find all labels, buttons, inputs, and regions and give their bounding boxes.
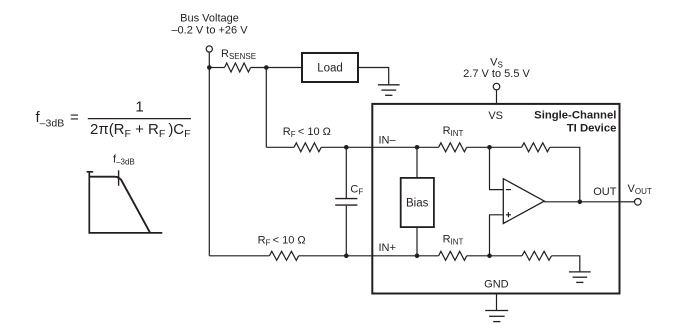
wire IN- to bias	[416, 147, 418, 178]
resistor RINT bottom	[417, 233, 522, 260]
svg-text:Bus Voltage: Bus Voltage	[180, 13, 239, 25]
wire op-amp output	[544, 201, 619, 203]
svg-text:TI Device: TI Device	[567, 123, 617, 135]
graph axes	[87, 172, 163, 233]
op-amp U1	[503, 179, 544, 224]
pin label IN-	[379, 135, 397, 147]
junction after RSENSE	[264, 65, 269, 70]
graph f-3dB tick	[118, 170, 120, 185]
load box	[302, 53, 358, 82]
svg-text:Load: Load	[317, 63, 343, 75]
junction CF bottom	[344, 254, 349, 259]
wire bias to IN+	[416, 227, 418, 256]
ground (device GND)	[485, 311, 508, 322]
device box Single-Channel TI Device	[372, 104, 619, 294]
svg-text:Bias: Bias	[406, 197, 429, 209]
resistor RF top (RF < 10 ohm)	[266, 126, 372, 152]
svg-text:RF < 10 Ω: RF < 10 Ω	[258, 234, 306, 247]
junction op-amp plus node	[487, 254, 492, 259]
svg-text:OUT: OUT	[593, 186, 617, 198]
graph response curve	[89, 177, 150, 233]
resistor RINT top	[417, 125, 522, 152]
svg-text:Single-Channel: Single-Channel	[534, 109, 616, 121]
wire IN+ into device	[372, 255, 417, 257]
wire bus terminal to top rail	[208, 52, 210, 67]
resistor RF bottom (RF < 10 ohm)	[209, 234, 372, 260]
ground (feedback bottom)	[569, 272, 591, 283]
resistor feedback bottom	[522, 251, 580, 272]
svg-text:=: =	[70, 109, 79, 126]
capacitor CF	[335, 147, 363, 256]
svg-text:2.7 V to 5.5 V: 2.7 V to 5.5 V	[463, 68, 530, 80]
wire GND to ground	[496, 294, 498, 311]
wire rsense to load junction	[251, 67, 302, 69]
node Bus Voltage terminal	[206, 46, 212, 52]
ground (load)	[378, 85, 400, 96]
resistor feedback top	[522, 143, 580, 202]
label Single-Channel TI Device	[534, 109, 616, 134]
svg-text:VS: VS	[488, 110, 503, 122]
label VS 2.7 V to 5.5 V	[463, 57, 530, 81]
pin label IN+	[379, 242, 396, 254]
resistor RSENSE	[209, 48, 256, 72]
pin label GND	[484, 279, 509, 291]
wire OUT to VOUT terminal	[620, 201, 635, 203]
svg-text:IN–: IN–	[379, 135, 397, 147]
svg-text:GND: GND	[484, 279, 509, 291]
wire to op-amp plus input	[490, 215, 504, 256]
junction CF top	[344, 145, 349, 150]
wire bus vertical to IN+ row	[208, 68, 210, 256]
node VS terminal	[493, 83, 500, 90]
formula f-3dB = 1/(2pi(RF+RF)CF)	[36, 99, 192, 140]
junction bias bottom	[415, 254, 420, 259]
bias box	[401, 178, 434, 227]
wire load to ground	[358, 68, 389, 85]
wire to op-amp minus input	[490, 147, 504, 189]
svg-text:RF < 10 Ω: RF < 10 Ω	[283, 126, 331, 139]
junction op-amp minus node	[487, 145, 492, 150]
junction output node	[578, 200, 583, 205]
pin label VS	[488, 110, 503, 122]
graph f-3dB label	[113, 154, 135, 167]
junction bias top	[415, 145, 420, 150]
node VOUT terminal	[635, 199, 642, 206]
junction bus/top rail	[207, 65, 212, 70]
svg-text:2π(RF + RF )CF: 2π(RF + RF )CF	[90, 121, 191, 140]
svg-text:IN+: IN+	[379, 242, 396, 254]
wire branch vertical to IN- row	[265, 68, 267, 148]
svg-text:–0.2 V to +26 V: –0.2 V to +26 V	[171, 25, 248, 37]
pin label OUT	[593, 186, 617, 198]
label VOUT	[628, 183, 652, 196]
wire IN- into device	[372, 146, 417, 148]
label Bus Voltage	[171, 13, 248, 37]
wire VS terminal to device	[496, 90, 498, 104]
svg-text:1: 1	[135, 99, 143, 116]
